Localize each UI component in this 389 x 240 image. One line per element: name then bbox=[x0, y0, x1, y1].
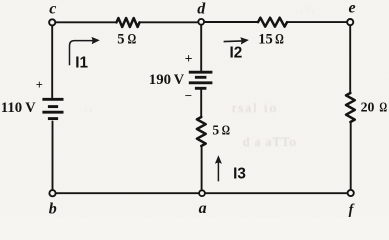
svg-text:rsal io: rsal io bbox=[232, 100, 278, 115]
svg-text:110: 110 bbox=[1, 100, 22, 116]
node b bbox=[49, 190, 55, 196]
wire mid d-battery bbox=[200, 25, 202, 71]
wire bottom b-a bbox=[55, 192, 198, 194]
wire d-e segment bbox=[204, 21, 258, 23]
svg-text:+: + bbox=[36, 78, 43, 92]
wire mid battery-resistor bbox=[200, 90, 202, 118]
wire right e-resistor bbox=[349, 26, 351, 94]
wire left battery-b bbox=[52, 122, 54, 191]
svg-text:190: 190 bbox=[149, 72, 171, 88]
svg-text:5: 5 bbox=[212, 123, 219, 138]
svg-text:Ω: Ω bbox=[275, 31, 284, 47]
svg-text:e: e bbox=[349, 0, 356, 16]
node d bbox=[198, 19, 204, 25]
svg-text:Ω: Ω bbox=[128, 31, 137, 47]
svg-text:V: V bbox=[174, 72, 185, 88]
svg-text:20: 20 bbox=[361, 100, 375, 115]
svg-text:I2: I2 bbox=[230, 44, 243, 61]
node a bbox=[199, 190, 205, 196]
svg-text:V: V bbox=[25, 100, 36, 116]
svg-text:. ,: . , bbox=[84, 101, 93, 113]
node e bbox=[347, 19, 353, 25]
svg-text:−: − bbox=[185, 88, 192, 103]
wire right resistor-f bbox=[350, 122, 352, 190]
resistor R 5ohm (top left) bbox=[117, 18, 140, 27]
svg-text:d: d bbox=[197, 1, 206, 18]
svg-text:c: c bbox=[49, 0, 56, 17]
svg-text:Ω: Ω bbox=[379, 99, 387, 115]
wire left c-battery bbox=[51, 26, 53, 98]
wire bottom a-f bbox=[206, 192, 349, 194]
battery V1 110V plates bbox=[42, 99, 63, 118]
resistor 15ohm (top right) bbox=[258, 18, 287, 27]
node f bbox=[348, 190, 354, 196]
current arrow I2 bbox=[224, 40, 243, 43]
battery V2 190V plates bbox=[189, 72, 213, 88]
svg-text:+: + bbox=[185, 51, 193, 66]
node c bbox=[49, 19, 55, 25]
wire resistor to d bbox=[140, 21, 199, 23]
svg-text:d a aTTo: d a aTTo bbox=[243, 134, 297, 149]
current arrow I3 bbox=[217, 162, 219, 181]
svg-text:I3: I3 bbox=[233, 166, 246, 183]
current arrow I1 bbox=[70, 41, 94, 66]
svg-text:Ω: Ω bbox=[222, 122, 231, 138]
svg-text:I1: I1 bbox=[75, 54, 88, 71]
svg-text:. : .: . : . bbox=[300, 3, 314, 15]
svg-text:a: a bbox=[199, 200, 207, 217]
wire mid resistor-a bbox=[201, 146, 203, 190]
svg-text:b: b bbox=[49, 201, 57, 218]
ghost bleed-through text bbox=[84, 3, 314, 149]
wire resistor to e bbox=[287, 21, 347, 23]
resistor 20ohm (right) bbox=[346, 93, 355, 122]
svg-text:5: 5 bbox=[117, 32, 124, 48]
svg-text:15: 15 bbox=[258, 32, 273, 48]
resistor R 5ohm (middle) bbox=[197, 117, 206, 146]
wire c-d top left segment bbox=[55, 21, 116, 23]
